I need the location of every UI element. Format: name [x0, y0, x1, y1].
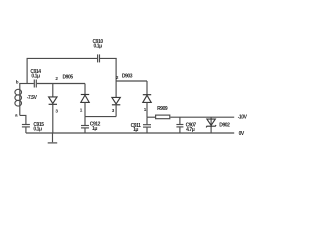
ground: [48, 133, 58, 143]
wire joining D905 pin1 and D903 pin3: [85, 116, 116, 118]
wire top loop horizontal left of C910: [27, 57, 98, 59]
wire D905 pin3 down to 0V bus: [52, 104, 54, 133]
svg-text:0V: 0V: [239, 131, 245, 137]
svg-text:0.1μ: 0.1μ: [31, 74, 40, 80]
svg-text:1: 1: [144, 107, 147, 112]
wire right vertical from top loop down to D903 pin2 bus: [115, 58, 117, 81]
wire C915 bottom to 0V bus: [25, 127, 27, 133]
wire left vertical from top loop down to node b bus: [26, 58, 28, 83]
capacitor C912: [81, 117, 101, 133]
svg-text:R909: R909: [157, 106, 168, 112]
capacitor C910: [93, 39, 104, 63]
svg-text:0.1μ: 0.1μ: [33, 127, 42, 133]
wire node b bus left segment: [19, 83, 33, 85]
wire 0V bus: [26, 132, 234, 134]
capacitor C907: [176, 117, 196, 133]
diode D905 dual common pin2: [49, 74, 90, 116]
svg-text:3: 3: [55, 108, 58, 113]
svg-text:b: b: [16, 80, 19, 85]
svg-text:1μ: 1μ: [133, 127, 138, 133]
wire from inductor bottom to C915: [20, 115, 26, 124]
svg-text:D905: D905: [63, 74, 74, 80]
capacitor C911: [131, 117, 151, 133]
inductor -7.5V winding: [15, 83, 38, 115]
wire R909 to -10V terminal: [171, 116, 235, 118]
svg-text:3: 3: [112, 108, 115, 113]
svg-text:4.7μ: 4.7μ: [186, 127, 195, 133]
svg-text:2: 2: [55, 76, 58, 81]
svg-text:1μ: 1μ: [92, 126, 97, 132]
svg-text:-10V: -10V: [238, 115, 248, 121]
svg-text:-7.5V: -7.5V: [27, 95, 38, 101]
wire D903 pin1 node to R909: [147, 116, 155, 118]
resistor R909: [156, 106, 170, 119]
wire node b bus right segment to D905: [37, 83, 85, 85]
zener diode D902: [206, 117, 230, 133]
svg-text:0.1μ: 0.1μ: [93, 43, 102, 49]
diode D903 dual common pin2: [112, 74, 151, 118]
svg-text:2: 2: [116, 75, 119, 80]
svg-text:a: a: [15, 112, 18, 117]
svg-text:1: 1: [80, 108, 83, 113]
wire top loop horizontal right of C910: [100, 57, 117, 59]
capacitor C914: [30, 69, 41, 88]
svg-text:D903: D903: [122, 74, 133, 80]
capacitor C915: [22, 122, 44, 133]
svg-text:D902: D902: [219, 122, 230, 128]
